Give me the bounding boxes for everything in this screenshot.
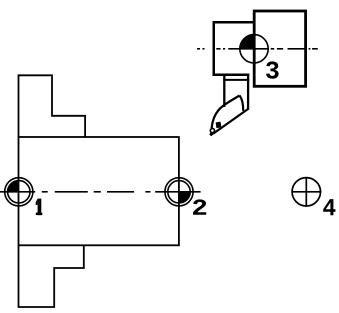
top jaw step xyxy=(19,75,86,137)
insert tip nub xyxy=(209,130,215,136)
label 4 xyxy=(323,199,335,215)
node 4 locating point symbol xyxy=(292,177,322,207)
label 1 xyxy=(36,199,43,216)
cutting insert (diamond) xyxy=(212,96,249,134)
insert nose circle xyxy=(210,128,214,132)
tool shank xyxy=(223,76,249,109)
node 2 locating point symbol xyxy=(165,178,193,206)
label 3 xyxy=(266,61,279,78)
center line horizontal (dash-dot) xyxy=(0,191,201,193)
node 1 locating point symbol xyxy=(5,178,33,206)
insert clamp dot xyxy=(216,122,222,128)
bottom jaw step xyxy=(19,245,84,307)
tool holder big block xyxy=(254,11,305,86)
label 2 xyxy=(193,199,206,214)
node 3 locating point symbol xyxy=(240,35,268,63)
tool center line (dash-dot) xyxy=(197,48,318,50)
tool holder small block xyxy=(214,22,254,75)
workpiece/chuck body outline xyxy=(19,75,179,307)
body main rectangle xyxy=(19,137,179,245)
